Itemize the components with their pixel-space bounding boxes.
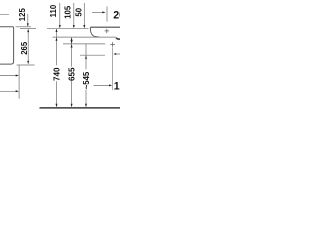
node arrow-right-545 (117, 53, 120, 55)
node cross1 (105, 29, 109, 33)
svg-text:105: 105 (64, 5, 73, 19)
svg-text:15: 15 (114, 80, 120, 92)
node dim-top-right (92, 11, 104, 13)
wire underside (53, 36, 117, 38)
node dim740 (56, 29, 58, 65)
wire rim-ext (47, 27, 89, 29)
node floor (40, 107, 121, 109)
wire level-545 (80, 54, 105, 56)
node arrow-left2 (0, 90, 17, 92)
wire ref-bottom (17, 64, 35, 66)
node dim545 (85, 44, 87, 70)
wire drain-vert (112, 47, 114, 90)
wire ref-b (20, 28, 36, 30)
svg-text:20: 20 (113, 10, 120, 22)
node basin (90, 26, 120, 28)
node dim655 (71, 38, 73, 67)
wire ref-a (16, 26, 32, 28)
svg-text:740: 740 (53, 67, 62, 81)
wire drain-level (63, 43, 105, 45)
wire vert-left (18, 65, 20, 99)
node dim-right (94, 84, 111, 86)
svg-text:110: 110 (49, 4, 58, 17)
node cross2 (110, 42, 115, 47)
wire (0, 14, 9, 16)
svg-text:~545: ~545 (82, 71, 91, 89)
svg-text:655: 655 (68, 67, 77, 81)
svg-text:50: 50 (75, 7, 84, 16)
node left-view (0, 27, 14, 64)
node arrow-left1 (0, 75, 17, 77)
svg-text:125: 125 (18, 8, 27, 22)
